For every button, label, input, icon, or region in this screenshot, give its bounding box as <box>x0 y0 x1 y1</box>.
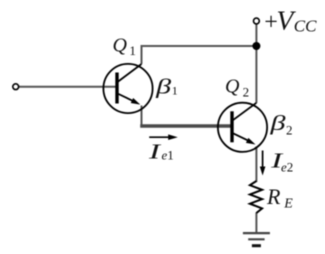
svg-text:e1: e1 <box>162 148 174 163</box>
svg-text:β: β <box>155 75 172 99</box>
svg-text:Q: Q <box>225 76 240 98</box>
svg-text:I: I <box>147 140 161 164</box>
svg-text:1: 1 <box>172 84 178 98</box>
svg-text:β: β <box>269 111 286 135</box>
svg-text:CC: CC <box>294 17 317 36</box>
svg-text:E: E <box>283 197 293 212</box>
svg-text:1: 1 <box>129 43 136 58</box>
svg-text:2: 2 <box>286 123 293 138</box>
svg-text:e2: e2 <box>281 160 293 175</box>
svg-text:2: 2 <box>243 85 250 100</box>
svg-text:Q: Q <box>113 35 128 57</box>
svg-text:R: R <box>266 184 281 209</box>
